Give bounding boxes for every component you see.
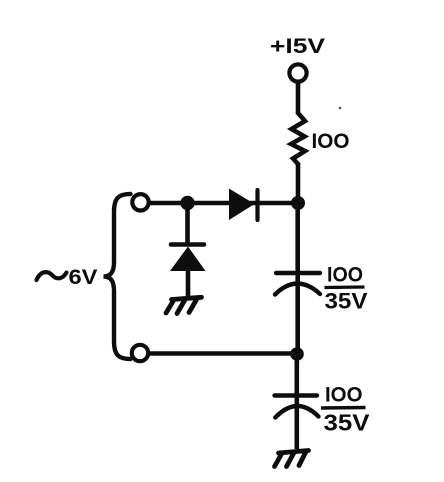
capacitor C2 bbox=[275, 396, 319, 418]
svg-text:35V: 35V bbox=[325, 289, 368, 314]
value label 100/35V (C1) bbox=[325, 264, 368, 314]
wire node B to diode D2 bbox=[185, 203, 190, 244]
terminal input bottom bbox=[132, 345, 148, 361]
diode D1 bbox=[229, 189, 258, 221]
ground (under C2) bbox=[275, 451, 309, 467]
ground (under D2) bbox=[166, 297, 202, 313]
stray ink speck bbox=[339, 107, 342, 110]
brace (6V source) bbox=[104, 194, 131, 359]
svg-text:IOO: IOO bbox=[327, 264, 363, 287]
wire node C through C2 to ground bbox=[294, 354, 299, 449]
resistor R1 bbox=[291, 113, 305, 164]
svg-text:IOO: IOO bbox=[325, 384, 363, 407]
diode D2 bbox=[170, 245, 206, 272]
wire terminal to resistor bbox=[296, 83, 301, 115]
junction node C bbox=[290, 347, 304, 361]
wire bottom horizontal (terminal to node C) bbox=[149, 351, 297, 356]
capacitor C1 bbox=[275, 273, 320, 295]
svg-text:6V: 6V bbox=[69, 266, 98, 289]
svg-text:+I5V: +I5V bbox=[270, 35, 325, 58]
source label ~6V bbox=[37, 266, 98, 289]
wire node A down through C1 to node C bbox=[295, 203, 300, 354]
wire diode D2 to ground bbox=[186, 271, 191, 298]
value label 100/35V (C2) bbox=[321, 384, 370, 436]
junction node B (left) bbox=[180, 196, 194, 210]
svg-text:35V: 35V bbox=[324, 410, 371, 436]
terminal input top bbox=[132, 194, 148, 210]
junction node A (right) bbox=[291, 196, 305, 210]
wire resistor to node A bbox=[296, 163, 301, 203]
wire top horizontal (terminal to node A) bbox=[149, 201, 294, 206]
terminal +15V bbox=[289, 64, 306, 81]
svg-text:IOO: IOO bbox=[312, 130, 350, 153]
